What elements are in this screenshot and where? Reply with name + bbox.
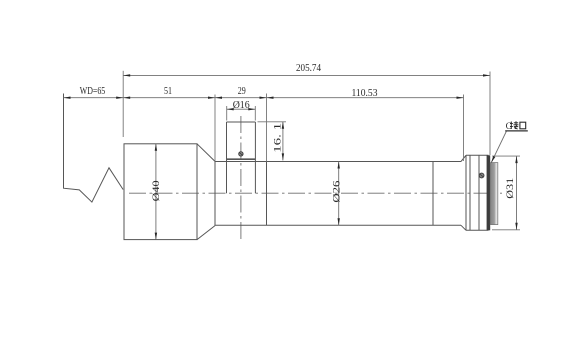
- svg-text:16. 1: 16. 1: [272, 123, 283, 153]
- svg-text:205.74: 205.74: [296, 63, 321, 74]
- svg-text:Ø26: Ø26: [332, 180, 343, 202]
- svg-text:Ø40: Ø40: [151, 180, 162, 201]
- svg-text:Ø31: Ø31: [505, 178, 516, 199]
- svg-text:Ø16: Ø16: [233, 100, 250, 111]
- svg-text:51: 51: [164, 86, 172, 97]
- svg-text:WD=65: WD=65: [80, 86, 106, 97]
- svg-text:110.53: 110.53: [352, 88, 378, 99]
- svg-text:29: 29: [238, 86, 246, 97]
